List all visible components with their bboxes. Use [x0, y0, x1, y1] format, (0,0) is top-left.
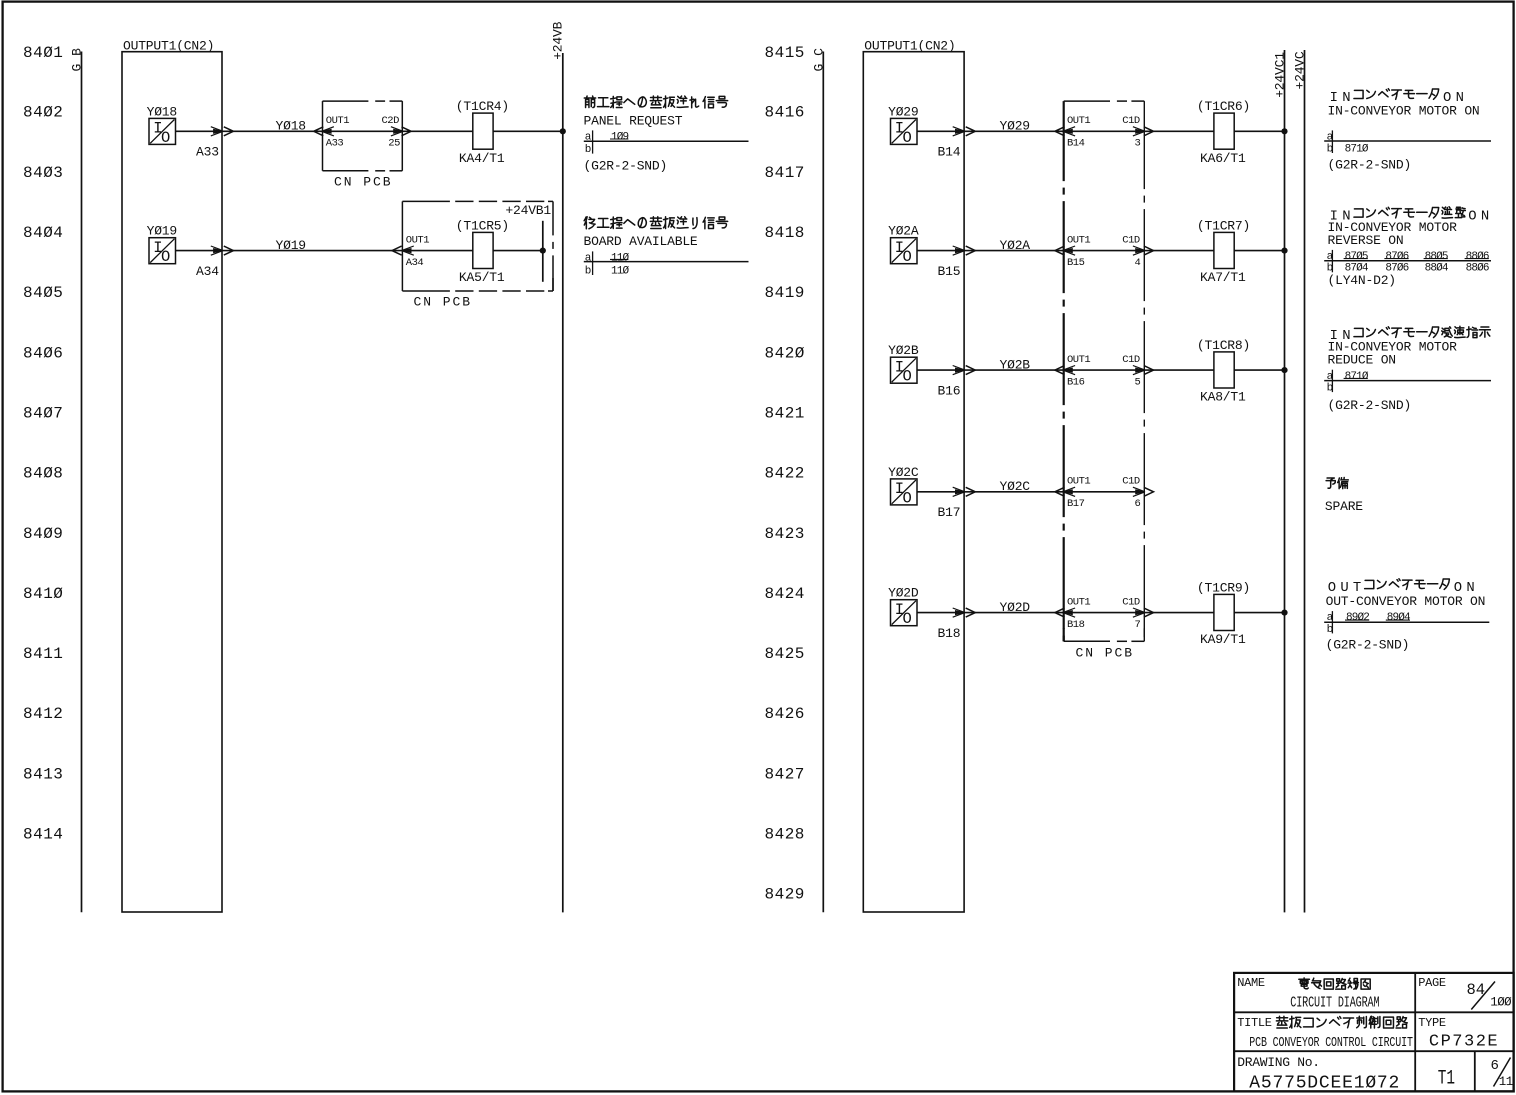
- svg-text:YØ2B: YØ2B: [1000, 357, 1031, 372]
- svg-text:KA4/T1: KA4/T1: [459, 151, 505, 166]
- annotation PANEL REQUEST (row 8402): [584, 96, 595, 107]
- svg-text:G C: G C: [811, 48, 826, 72]
- svg-text:B16: B16: [938, 383, 961, 398]
- svg-text:88Ø5: 88Ø5: [1425, 251, 1448, 263]
- svg-text:OUT-CONVEYOR MOTOR ON: OUT-CONVEYOR MOTOR ON: [1326, 594, 1486, 609]
- svg-text:8421: 8421: [765, 404, 805, 422]
- svg-text:88Ø6: 88Ø6: [1466, 251, 1489, 263]
- svg-text:5: 5: [1135, 376, 1141, 388]
- junction on +24VC1 (T1CR8): [1234, 369, 1284, 371]
- svg-text:KA8/T1: KA8/T1: [1200, 390, 1246, 405]
- svg-text:OUTPUT1(CN2): OUTPUT1(CN2): [123, 39, 214, 54]
- svg-text:KA5/T1: KA5/T1: [459, 270, 505, 285]
- svg-text:841Ø: 841Ø: [23, 585, 63, 603]
- wire YØ29 to relay: [1144, 130, 1214, 132]
- svg-text:(T1CR5): (T1CR5): [456, 218, 509, 233]
- svg-text:A34: A34: [406, 257, 424, 269]
- svg-text:YØ2D: YØ2D: [1000, 600, 1031, 615]
- wire YØ2D: [917, 612, 1064, 614]
- svg-text:KA9/T1: KA9/T1: [1200, 632, 1246, 647]
- svg-text:OUT1: OUT1: [1067, 354, 1090, 366]
- wire YØ2B to relay: [1144, 369, 1214, 371]
- svg-text:YØ2C: YØ2C: [1000, 479, 1031, 494]
- svg-text:A34: A34: [196, 264, 219, 279]
- svg-text:O: O: [161, 248, 170, 266]
- svg-text:(T1CR7): (T1CR7): [1197, 218, 1250, 233]
- svg-text:(T1CR8): (T1CR8): [1197, 338, 1250, 353]
- power rail +24VC: [1304, 50, 1306, 913]
- svg-text:b: b: [585, 265, 592, 277]
- svg-text:O: O: [903, 489, 912, 507]
- svg-text:OUT1: OUT1: [1067, 115, 1090, 127]
- svg-text:OUT1: OUT1: [1067, 596, 1090, 608]
- svg-text:B15: B15: [1067, 257, 1085, 269]
- I/O output YØ2B: [891, 357, 918, 383]
- I/O output YØ29: [891, 118, 918, 144]
- svg-text:8428: 8428: [765, 826, 805, 844]
- module CN PCB (right, rows 8416-8424): [1064, 100, 1110, 102]
- svg-text:88Ø6: 88Ø6: [1466, 263, 1489, 275]
- svg-text:TITLE: TITLE: [1237, 1016, 1272, 1030]
- svg-text:O: O: [161, 129, 170, 147]
- svg-text:PANEL REQUEST: PANEL REQUEST: [584, 114, 683, 129]
- svg-text:YØ2A: YØ2A: [1000, 238, 1031, 253]
- svg-text:8424: 8424: [765, 585, 805, 603]
- svg-text:O: O: [903, 129, 912, 147]
- svg-text:CN PCB: CN PCB: [334, 175, 393, 190]
- svg-text:11Ø: 11Ø: [611, 265, 630, 277]
- svg-text:B14: B14: [1067, 138, 1085, 150]
- svg-text:8413: 8413: [23, 765, 63, 783]
- wire Y019 from I/O to CN PCB: [176, 250, 473, 252]
- svg-text:C1D: C1D: [1122, 354, 1140, 366]
- power rail +24VC1: [1284, 50, 1286, 912]
- svg-text:OUT1: OUT1: [1067, 476, 1090, 488]
- wire YØ2A: [917, 250, 1064, 252]
- svg-text:8417: 8417: [765, 164, 805, 182]
- svg-text:6: 6: [1135, 498, 1141, 510]
- svg-text:N: N: [1481, 208, 1489, 224]
- relay coil T1CR5 (KA5/T1): [473, 232, 493, 268]
- svg-text:(G2R-2-SND): (G2R-2-SND): [1328, 398, 1412, 413]
- svg-text:TYPE: TYPE: [1418, 1016, 1446, 1030]
- svg-text:YØ29: YØ29: [1000, 119, 1030, 134]
- svg-text:88Ø4: 88Ø4: [1425, 263, 1449, 275]
- wire Y018 from I/O to CN PCB: [176, 130, 473, 132]
- svg-text:YØ2A: YØ2A: [888, 224, 919, 239]
- annotation BOARD AVAILABLE (row 8404): [584, 217, 595, 229]
- svg-text:B14: B14: [938, 145, 961, 160]
- svg-text:YØ2D: YØ2D: [888, 586, 919, 601]
- svg-text:8418: 8418: [765, 224, 805, 242]
- svg-text:84Ø8: 84Ø8: [23, 465, 63, 483]
- svg-text:(T1CR9): (T1CR9): [1197, 580, 1250, 595]
- svg-text:T1: T1: [1438, 1068, 1455, 1091]
- svg-text:7: 7: [1135, 619, 1141, 631]
- relay coil T1CR6 (KA6/T1): [1214, 113, 1234, 149]
- svg-text:OUTPUT1(CN2): OUTPUT1(CN2): [864, 39, 955, 54]
- svg-text:OUT1: OUT1: [326, 115, 349, 127]
- svg-text:A5775DCEE1Ø72: A5775DCEE1Ø72: [1249, 1074, 1400, 1094]
- svg-text:IN-CONVEYOR MOTOR ON: IN-CONVEYOR MOTOR ON: [1328, 104, 1480, 119]
- svg-text:84Ø4: 84Ø4: [23, 224, 63, 242]
- net G B bus: [81, 52, 83, 913]
- svg-text:YØ18: YØ18: [147, 104, 177, 119]
- svg-text:8412: 8412: [23, 705, 63, 723]
- svg-text:OUT1: OUT1: [406, 234, 429, 246]
- I/O output YØ2A: [891, 238, 918, 264]
- svg-text:1ØØ: 1ØØ: [1490, 996, 1512, 1010]
- svg-text:(T1CR4): (T1CR4): [456, 99, 509, 114]
- svg-text:YØ19: YØ19: [276, 238, 306, 253]
- svg-text:DRAWING No.: DRAWING No.: [1237, 1055, 1320, 1070]
- svg-text:O: O: [1468, 208, 1476, 224]
- svg-text:CIRCUIT DIAGRAM: CIRCUIT DIAGRAM: [1290, 995, 1379, 1011]
- svg-text:84Ø3: 84Ø3: [23, 164, 63, 182]
- svg-text:PAGE: PAGE: [1418, 976, 1446, 990]
- svg-text:11: 11: [1499, 1075, 1513, 1089]
- svg-text:C1D: C1D: [1122, 234, 1140, 246]
- svg-text:O: O: [903, 368, 912, 386]
- module CN PCB (row 8404): [402, 200, 450, 202]
- svg-text:C1D: C1D: [1122, 115, 1140, 127]
- svg-text:YØ18: YØ18: [276, 119, 306, 134]
- wire YØ2C inside CN PCB: [1064, 491, 1145, 493]
- svg-text:1Ø9: 1Ø9: [611, 132, 629, 144]
- svg-text:+24VC: +24VC: [1293, 51, 1308, 89]
- svg-text:PCB CONVEYOR CONTROL CIRCUIT: PCB CONVEYOR CONTROL CIRCUIT: [1249, 1035, 1412, 1051]
- title block frame: [1234, 973, 1514, 1092]
- svg-text:8429: 8429: [765, 886, 805, 904]
- power rail +24VB: [562, 53, 564, 912]
- svg-text:B17: B17: [1067, 498, 1085, 510]
- svg-text:BOARD AVAILABLE: BOARD AVAILABLE: [584, 234, 698, 249]
- svg-text:87Ø5: 87Ø5: [1345, 251, 1368, 263]
- relay coil T1CR9 (KA9/T1): [1214, 594, 1234, 630]
- svg-text:25: 25: [388, 138, 400, 150]
- junction on +24VC1 (T1CR7): [1234, 250, 1284, 252]
- svg-text:C1D: C1D: [1122, 476, 1140, 488]
- svg-text:B15: B15: [938, 264, 961, 279]
- svg-text:YØ2B: YØ2B: [888, 343, 919, 358]
- svg-text:8422: 8422: [765, 465, 805, 483]
- svg-text:KA7/T1: KA7/T1: [1200, 270, 1246, 285]
- svg-text:84Ø5: 84Ø5: [23, 284, 63, 302]
- relay coil T1CR7 (KA7/T1): [1214, 232, 1234, 268]
- wire YØ2A inside CN PCB: [1064, 250, 1145, 252]
- svg-text:b: b: [585, 144, 592, 156]
- svg-text:(G2R-2-SND): (G2R-2-SND): [1328, 158, 1412, 173]
- svg-text:84Ø9: 84Ø9: [23, 525, 63, 543]
- svg-text:REVERSE ON: REVERSE ON: [1328, 233, 1404, 248]
- svg-text:87Ø6: 87Ø6: [1385, 251, 1408, 263]
- svg-text:8426: 8426: [765, 705, 805, 723]
- svg-text:8427: 8427: [765, 765, 805, 783]
- relay coil T1CR4 (KA4/T1): [473, 113, 493, 149]
- svg-text:YØ29: YØ29: [888, 104, 918, 119]
- svg-text:B16: B16: [1067, 376, 1085, 388]
- junction on +24VB1: [493, 250, 543, 252]
- svg-text:NAME: NAME: [1237, 976, 1265, 990]
- svg-text:A33: A33: [196, 145, 219, 160]
- svg-text:a: a: [585, 253, 592, 265]
- svg-text:C1D: C1D: [1122, 596, 1140, 608]
- svg-text:+24VB1: +24VB1: [505, 203, 551, 218]
- svg-text:89Ø4: 89Ø4: [1387, 612, 1411, 624]
- svg-text:SPARE: SPARE: [1325, 499, 1363, 514]
- svg-text:871Ø: 871Ø: [1345, 371, 1369, 383]
- svg-text:YØ2C: YØ2C: [888, 465, 919, 480]
- net G C bus: [822, 52, 824, 913]
- wire YØ2D inside CN PCB: [1064, 612, 1145, 614]
- module CN PCB (row 8402): [323, 100, 369, 102]
- svg-text:84Ø2: 84Ø2: [23, 104, 63, 122]
- junction on +24VC1 (T1CR6): [1234, 130, 1284, 132]
- svg-text:(G2R-2-SND): (G2R-2-SND): [584, 159, 668, 174]
- svg-text:A33: A33: [326, 138, 344, 150]
- connector OUTPUT1(CN2) left: [122, 52, 222, 912]
- svg-text:8416: 8416: [765, 104, 805, 122]
- svg-text:(G2R-2-SND): (G2R-2-SND): [1326, 638, 1410, 653]
- svg-text:4: 4: [1135, 257, 1141, 269]
- I/O output YØ2D: [891, 600, 918, 626]
- wire YØ29 inside CN PCB: [1064, 130, 1145, 132]
- svg-text:(T1CR6): (T1CR6): [1197, 99, 1250, 114]
- wire YØ2B: [917, 369, 1064, 371]
- svg-text:B17: B17: [938, 505, 961, 520]
- svg-text:CN PCB: CN PCB: [1076, 646, 1135, 661]
- svg-text:8414: 8414: [23, 826, 63, 844]
- I/O output YØ2C: [891, 479, 918, 505]
- svg-text:84Ø1: 84Ø1: [23, 44, 63, 62]
- svg-text:O: O: [903, 248, 912, 266]
- svg-text:84Ø7: 84Ø7: [23, 404, 63, 422]
- svg-text:871Ø: 871Ø: [1345, 143, 1369, 155]
- svg-text:89Ø2: 89Ø2: [1346, 612, 1369, 624]
- junction on +24VB row 8402: [493, 130, 563, 132]
- svg-text:84Ø6: 84Ø6: [23, 344, 63, 362]
- svg-text:G B: G B: [70, 48, 85, 72]
- annotation SPARE (row 8422): [1326, 478, 1335, 488]
- svg-text:8419: 8419: [765, 284, 805, 302]
- svg-text:C2D: C2D: [382, 115, 400, 127]
- svg-text:8411: 8411: [23, 645, 63, 663]
- svg-text:8425: 8425: [765, 645, 805, 663]
- svg-text:(LY4N-D2): (LY4N-D2): [1328, 273, 1396, 288]
- svg-text:OUT1: OUT1: [1067, 234, 1090, 246]
- svg-text:3: 3: [1135, 138, 1141, 150]
- wire YØ2C: [917, 491, 1064, 493]
- wire YØ2D to relay: [1144, 612, 1214, 614]
- svg-text:YØ19: YØ19: [147, 224, 177, 239]
- I/O output YØ18: [149, 118, 176, 144]
- svg-text:8423: 8423: [765, 525, 805, 543]
- svg-text:KA6/T1: KA6/T1: [1200, 151, 1246, 166]
- svg-text:6: 6: [1491, 1058, 1499, 1074]
- svg-text:REDUCE ON: REDUCE ON: [1328, 352, 1396, 367]
- svg-text:11Ø: 11Ø: [611, 253, 630, 265]
- I/O output YØ19: [149, 238, 176, 264]
- svg-text:842Ø: 842Ø: [765, 344, 805, 362]
- svg-text:CN PCB: CN PCB: [414, 295, 473, 310]
- svg-text:O: O: [903, 610, 912, 628]
- svg-text:8415: 8415: [765, 44, 805, 62]
- wire YØ2A to relay: [1144, 250, 1214, 252]
- svg-text:CP732E: CP732E: [1429, 1033, 1499, 1052]
- wire YØ29: [917, 130, 1064, 132]
- wire YØ2B inside CN PCB: [1064, 369, 1145, 371]
- relay coil T1CR8 (KA8/T1): [1214, 352, 1234, 388]
- svg-text:B18: B18: [1067, 619, 1085, 631]
- connector OUTPUT1(CN2) right: [863, 52, 964, 912]
- svg-text:+24VC1: +24VC1: [1272, 52, 1287, 98]
- junction on +24VC1 (T1CR9): [1234, 612, 1284, 614]
- svg-text:B18: B18: [938, 626, 961, 641]
- svg-text:+24VB: +24VB: [551, 21, 566, 59]
